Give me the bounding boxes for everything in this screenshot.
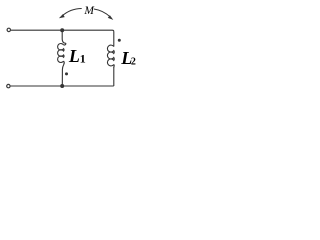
wire right vertical lower [113, 68, 115, 87]
mutual inductance arrow right half [94, 9, 110, 17]
wire right vertical upper [113, 32, 115, 47]
arrowhead right [108, 15, 114, 20]
terminal top-left [7, 28, 10, 31]
node junction top (L1 top) [60, 28, 64, 32]
svg-text:2: 2 [131, 57, 136, 68]
polarity dot L1 [65, 72, 68, 75]
svg-text:M: M [83, 5, 95, 17]
polarity dot L2 [118, 39, 121, 42]
node junction bottom (L1 bottom) [60, 84, 64, 88]
mutual inductance arrow left half [62, 9, 82, 17]
svg-text:L: L [68, 46, 80, 66]
inductor L2 [107, 45, 114, 66]
wire L2 bottom lead [113, 64, 115, 68]
wire L1 bottom lead [62, 61, 64, 86]
wire bottom horizontal [11, 85, 114, 87]
inductor L1 [58, 44, 64, 63]
arrowhead left [59, 14, 65, 18]
wire top horizontal [11, 30, 114, 32]
svg-text:1: 1 [80, 51, 86, 65]
terminal bottom-left [7, 84, 10, 87]
wire L1 top lead [62, 30, 66, 45]
